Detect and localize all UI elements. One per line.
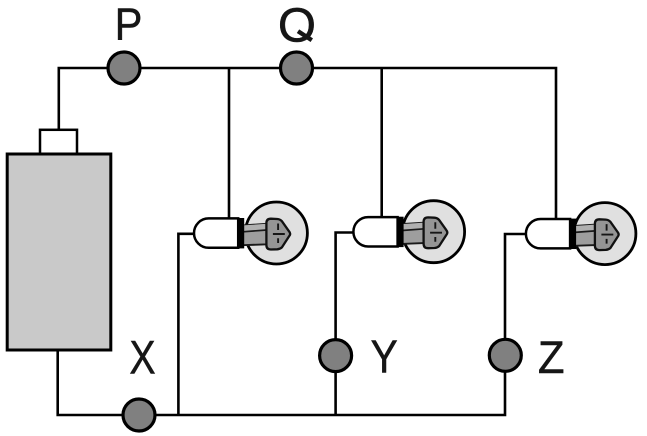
- lamp L3: [526, 203, 636, 265]
- wire: feed drop to lamp L1: [228, 68, 231, 222]
- battery positive terminal cap: [40, 130, 77, 156]
- lamp L1 glass bulb: [245, 202, 307, 264]
- lamp L3 filament stem: [575, 224, 599, 245]
- lamp L2 glass bulb: [403, 201, 465, 263]
- label Z: [538, 333, 565, 383]
- label P: [115, 0, 143, 50]
- node P: [108, 52, 140, 84]
- lamp L3 socket capsule: [526, 219, 570, 248]
- wire: battery positive lead + top bus + right drop to lamp L3: [59, 68, 556, 222]
- svg-text:P: P: [115, 0, 143, 50]
- battery B1: [7, 154, 111, 350]
- label Y: [371, 332, 398, 383]
- lamp L2 socket capsule: [353, 217, 397, 246]
- node Z: [489, 339, 521, 371]
- lamp L1 filament stem: [243, 224, 267, 245]
- wire: feed drop to lamp L2: [380, 68, 383, 222]
- wire: lamp L1 return to bottom bus: [178, 234, 197, 415]
- lamp L3 glass bulb: [574, 203, 636, 265]
- lamp L1 base band: [238, 218, 244, 248]
- label Q: [278, 0, 316, 52]
- node Q: [281, 52, 313, 84]
- svg-text:Z: Z: [538, 333, 565, 383]
- svg-text:O: O: [278, 0, 316, 52]
- node X: [123, 399, 155, 431]
- wire: battery negative lead + bottom bus + riser to lamp L3 return: [58, 234, 527, 415]
- lamp L2: [353, 201, 464, 263]
- lamp L2 base band: [398, 217, 404, 247]
- label Q tail: [298, 31, 312, 40]
- lamp L2 filament head: [424, 217, 448, 248]
- lamp L2 filament stem: [402, 223, 426, 244]
- svg-text:Y: Y: [371, 332, 398, 383]
- lamp L2 head marks: [430, 222, 442, 242]
- lamp L3 head marks: [601, 224, 613, 244]
- label X: [129, 332, 155, 384]
- lamp L1: [194, 202, 307, 264]
- node Y: [320, 340, 352, 372]
- lamp L1 filament head: [266, 219, 290, 250]
- lamp L1 socket capsule: [194, 218, 238, 247]
- lamp L3 base band: [570, 219, 576, 249]
- svg-text:X: X: [129, 332, 155, 384]
- lamp L1 head marks: [273, 224, 285, 244]
- wire: lamp L2 return through node Y to bottom bus: [336, 233, 354, 416]
- lamp L3 filament head: [595, 219, 619, 250]
